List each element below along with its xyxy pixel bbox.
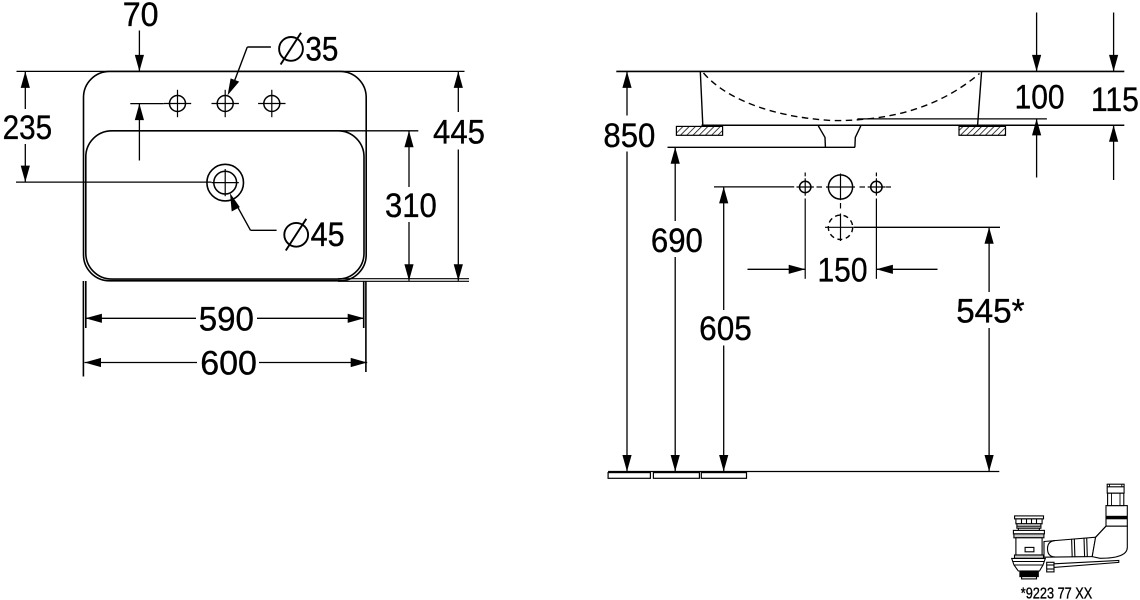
svg-text:150: 150 [818,252,868,290]
dim 600 [85,345,368,383]
neck ring [1018,528,1039,530]
horizontal pipe [1044,537,1096,557]
605 extension line [714,186,794,188]
label Ø45 with leader [230,193,345,254]
floor box 1 [608,473,650,479]
black band [1020,571,1038,577]
bottom lip [1022,577,1037,579]
hole extension line right (down to 150 dim) [875,199,877,279]
pop-up rod [1054,561,1119,568]
elbow [1092,526,1127,558]
floor line [608,471,999,473]
svg-text:690: 690 [651,222,703,260]
svg-text:590: 590 [199,300,254,338]
svg-text:*9223 77 XX: *9223 77 XX [1021,585,1093,600]
floor box 2 [653,473,699,479]
front faucet hole middle [826,174,855,201]
flared skirt [1012,558,1046,571]
rim line [616,70,1124,72]
svg-text:445: 445 [433,113,485,151]
elbow seam [1096,526,1106,537]
dim 310 [385,131,437,281]
underside shelf line [702,124,1125,126]
pipe joint rings [1071,539,1074,557]
top edge extension line [17,70,465,72]
front faucet hole left [797,173,814,196]
main body [1016,538,1042,555]
dim 605 [699,187,752,472]
dim 100 [1015,13,1065,178]
pop-up cap disc [1015,516,1044,519]
dim 70 [123,0,164,161]
dim 115 [1091,13,1139,181]
faucet hole middle [212,90,239,117]
basin outer outline [84,71,367,280]
label Ø35 with leader [228,30,339,95]
svg-text:600: 600 [200,345,257,383]
flange shaded band [1014,534,1044,538]
extension lines below plan view [83,281,366,377]
vertical pipe top cap [1107,484,1124,493]
floor box 3 [701,473,746,479]
svg-text:100: 100 [1015,78,1065,116]
inner bottom extension line [338,278,469,280]
dim 445 [433,71,485,280]
pop-up rod nut [1047,562,1054,572]
svg-text:605: 605 [699,310,752,348]
basin left wall [700,71,703,125]
faucet hole right [258,90,285,117]
drain hole [207,164,244,201]
svg-text:35: 35 [305,30,338,68]
bowl dashed profile [704,73,980,121]
545 extension line [854,226,1000,228]
svg-text:545*: 545* [956,292,1024,330]
bottom edge extension line [338,280,469,282]
vertical pipe collar [1106,506,1127,526]
mounting bracket right (hatched) [959,126,1006,135]
cap ring [1017,524,1041,528]
dim 590 [85,300,364,338]
dim 690 [651,147,703,471]
knurled band [1015,555,1044,558]
svg-text:310: 310 [385,187,437,225]
inner-top extension line [336,130,418,132]
svg-text:850: 850 [603,117,655,155]
dashed drain circle [825,203,854,241]
hole extension line left (down to 150 dim) [804,199,806,279]
drain centerline [16,181,212,183]
dim 150 [748,252,938,290]
cap slots [1016,519,1042,524]
pipe socket curve [1048,541,1056,557]
mounting bracket left (hatched) [676,126,722,135]
svg-text:115: 115 [1091,81,1139,119]
inner bottom extension line [857,118,1047,120]
dim 545* [956,227,1024,471]
centerline dashes between holes [817,186,892,188]
body label [1025,547,1034,551]
upper flange [1013,530,1044,534]
svg-text:235: 235 [3,109,53,147]
vertical pipe tube [1108,493,1124,506]
front faucet hole right [868,173,885,196]
basin right wall [978,71,982,125]
collar black band [1106,516,1127,520]
basin inner outline [86,131,364,279]
faucet hole left [164,90,191,117]
drain outlet [818,126,861,147]
dim 235 [3,71,53,182]
svg-text:45: 45 [311,216,345,254]
dim 850 [603,71,655,471]
drain bottom / 690 extension line [668,146,856,148]
svg-text:70: 70 [123,0,159,34]
